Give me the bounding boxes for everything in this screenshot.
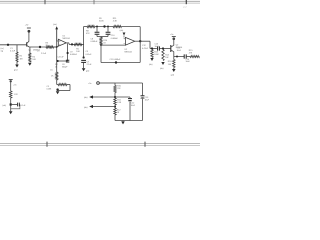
net flag below R14 [160,62,165,70]
capacitor C8 [95,27,100,37]
svg-text:360pF: 360pF [62,67,68,69]
node feedback [67,52,69,54]
node rail j2 [103,25,105,27]
net flag vb to U2 [120,30,126,38]
wire P3 to divider [99,82,115,84]
svg-text:C11 0.068uF: C11 0.068uF [110,59,122,61]
top border tick 3 [184,0,188,9]
wire rail mid [95,26,113,28]
node tap1 [114,96,116,98]
wire cap bottoms [97,36,108,38]
svg-text:2.2uF: 2.2uF [41,53,47,55]
input net label [1,48,4,53]
node U2 out [139,40,141,42]
capacitor C12 feedback [139,27,141,63]
border frame top (double line) [0,1,200,3]
svg-text:100: 100 [168,64,171,66]
wire to R4 [56,61,58,72]
wire rail right [122,26,141,28]
wire C7 bottom [83,62,85,68]
node B top corner rail [84,26,87,28]
resistor R2 [29,53,31,62]
wire vertical node B [83,27,85,58]
R3 value label [46,42,50,47]
svg-text:0.068uF: 0.068uF [70,54,78,56]
R10 value label [103,40,108,45]
loop labels [47,86,52,91]
wire P4 down [10,82,12,91]
svg-text:NE5534: NE5534 [125,52,133,54]
svg-text:gnd: gnd [171,74,174,76]
resistor R18 [114,98,116,105]
node C13 out [162,47,164,49]
wire tap2 [93,106,116,108]
svg-text:0.068: 0.068 [47,88,52,90]
net flag vb to U1 [53,24,58,41]
capacitor C17 [18,103,20,107]
wire R4 to loop [56,80,58,85]
wire step down [150,41,157,48]
ground below C7 [82,68,89,72]
ground below R16 [171,68,176,77]
svg-text:1M: 1M [20,59,23,61]
wire C11 horizontal [101,62,140,64]
svg-text:sig: sig [1,51,4,53]
wire C17 return [11,105,20,109]
wire Q2 emitter out [174,56,184,58]
wire divider bottom rail [115,120,143,122]
wire feedback leg [67,44,69,62]
resistor R10 mid [100,37,102,45]
U2 ref label [125,49,133,54]
svg-text:0.1uF: 0.1uF [21,105,27,107]
svg-text:0.47uF: 0.47uF [142,48,149,50]
svg-text:C4 1uF: C4 1uF [57,57,64,59]
ground below R1 [14,65,19,72]
net flag vb1 [84,95,93,99]
C16 value label [145,97,150,102]
resistor R20 [10,91,12,98]
op-amp U1 [58,39,66,46]
border frame bottom (double line) [0,144,200,146]
R8 label [86,30,90,35]
node R10 foot [100,44,102,46]
capacitor C7 [81,60,86,62]
node U1 out junction [71,43,73,45]
capacitor C5 label [50,69,53,71]
svg-text:(vb): (vb) [3,105,7,107]
capacitor C3 label [37,50,47,55]
svg-text:(vb): (vb) [84,107,88,109]
wire C14 to R15 [186,56,190,58]
ground below loop [56,91,60,94]
wire bottom of legs [57,60,68,62]
power +9V P2 [170,34,176,40]
resistor R13 [151,50,153,58]
U1 ref label [63,35,71,40]
svg-text:0.068uF: 0.068uF [91,41,99,43]
R11 value label [113,18,118,23]
ground below node [9,111,13,114]
wire R3 to op-amp [54,46,57,48]
top border tick 2 [93,0,95,4]
svg-text:1.2K: 1.2K [14,94,19,96]
svg-text:(vb): (vb) [149,64,153,66]
transistor Q1 [27,33,30,47]
svg-text:100K: 100K [154,54,159,56]
op-amp U2 [124,37,135,45]
wire R20 to node [10,98,12,111]
C10 value label [111,35,119,40]
resistor R11 [113,26,122,28]
C9 label [86,51,93,56]
net flag vb2 [84,105,93,109]
R16 value label [168,61,173,66]
top border tick 1 [44,0,46,4]
capacitor C16 right [141,96,145,121]
ground below divider [121,121,125,125]
capacitor C6 [66,60,69,62]
wire inverting leg [56,30,58,62]
svg-text:0.1uF: 0.1uF [10,51,16,53]
capacitor C13 [158,46,160,50]
svg-text:NE5534: NE5534 [63,38,71,40]
node tap2 [114,105,116,107]
wire input [0,44,26,46]
C15 value label [131,103,136,107]
wire U2 output [135,40,150,42]
resistor R14 [162,50,164,61]
wire node to C17 [12,104,17,106]
bottom border tick 2 [144,142,146,147]
capacitor C10 [106,27,111,37]
wire C11 leg down [100,45,102,62]
C12 value label [142,45,149,50]
svg-text:300K: 300K [99,21,104,23]
node rail j1 [96,26,98,28]
wire U1 output [66,43,83,45]
resistor R19 [114,107,116,116]
resistor R16 [173,57,175,68]
wire R1 bottom [16,62,18,65]
R18 value label [117,100,122,105]
wire right cap leg [142,83,144,95]
wire C13 to Q2 [159,48,170,50]
capacitor C1 label [10,48,16,52]
R15 value label [189,50,194,55]
svg-text:(vb): (vb) [120,30,124,32]
R2 value label [32,57,36,62]
R19 value label [117,110,122,115]
C7 value label [87,61,93,66]
svg-text:4.3K: 4.3K [113,21,118,23]
wire R19 bottom [114,115,116,121]
wire R17 to tap1 [114,93,116,99]
power +9V P4 [9,80,17,87]
svg-text:0.01uF: 0.01uF [86,54,93,56]
transistor Q2 [171,40,174,57]
R13 value label [154,52,159,57]
node rail j3 [107,26,109,28]
svg-text:(vb): (vb) [160,68,164,70]
wire Q1 emitter [29,46,58,47]
net flag below R13 [149,58,154,66]
resistor R5 loop [57,84,70,91]
node inv leg [56,46,58,48]
ground below R2 [28,63,32,66]
wire divider top rail [115,82,143,84]
R5 value label [70,48,81,56]
R4 C6 value labels [55,64,68,68]
wire R1 top [16,45,18,52]
R5 out resistor [74,43,82,45]
resistor R17 [114,83,116,93]
R17 value label [117,86,122,91]
R1 value label [20,56,24,61]
svg-text:gnd: gnd [86,70,89,72]
resistor R9 [87,26,95,28]
R9 value label [99,18,104,23]
wire to U2 input [101,44,125,46]
resistor R1 [16,52,18,62]
resistor R15 [190,56,200,58]
node C11 [115,61,117,63]
power +9V P1 [25,25,31,33]
node A junction [39,46,41,48]
Q2 ref label [176,45,183,50]
C8 value label [91,38,99,43]
svg-text:gnd: gnd [14,70,17,72]
node leg junction [57,60,59,62]
resistor R3 [46,46,54,48]
node step [151,47,153,49]
svg-text:+9v: +9v [13,84,16,86]
node emitter [176,56,178,58]
power +9V P3 [88,82,99,85]
bottom border tick 1 [46,142,48,147]
resistor R4 [56,72,58,80]
C13 value label [155,43,160,48]
Q1 ref label [28,50,39,52]
svg-text:(vb): (vb) [84,97,88,99]
C14 value label [177,48,182,53]
C14 below label [186,59,191,63]
svg-text:(vb): (vb) [53,24,57,26]
node loop junction [56,88,58,90]
capacitor C15 mid [128,97,132,121]
wire R2 top [29,47,31,53]
capacitor C14 [184,54,186,58]
node vb junction [10,103,12,105]
node input pad [7,44,9,46]
R14 value label [165,54,170,59]
svg-text:2.2uF: 2.2uF [87,64,93,66]
wire tap1 [93,96,131,98]
svg-text:0.068uF: 0.068uF [111,38,119,40]
R4 side label [51,75,54,77]
node B junction [83,56,85,58]
